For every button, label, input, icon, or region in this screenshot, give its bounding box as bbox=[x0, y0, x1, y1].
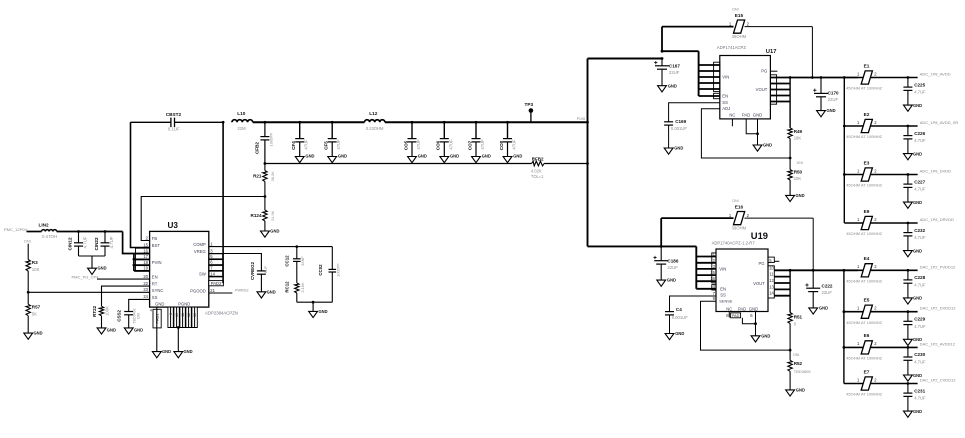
svg-text:11: 11 bbox=[181, 313, 185, 317]
wire E16 output down to U19 VOUT rail bbox=[812, 218, 814, 270]
net P1V8 label bbox=[577, 117, 585, 121]
svg-text:EN: EN bbox=[152, 275, 158, 280]
svg-text:0.33OHM: 0.33OHM bbox=[366, 126, 384, 131]
wire U3 GND pin 4 to ground bbox=[156, 307, 158, 352]
svg-text:GND: GND bbox=[513, 153, 522, 158]
capacitor C228 bbox=[903, 269, 926, 298]
svg-text:23: 23 bbox=[143, 287, 148, 292]
svg-text:DNI: DNI bbox=[732, 199, 738, 203]
ferrite bead E3 bbox=[844, 160, 917, 187]
svg-text:R124: R124 bbox=[251, 213, 262, 218]
capacitor CIN22 bbox=[94, 230, 114, 256]
svg-text:0.47OH: 0.47OH bbox=[42, 234, 57, 239]
node FB tap junction bbox=[264, 195, 267, 198]
svg-text:R52: R52 bbox=[794, 361, 803, 366]
svg-text:GND: GND bbox=[796, 387, 805, 392]
svg-text:SW: SW bbox=[199, 272, 206, 277]
svg-text:PAD: PAD bbox=[732, 314, 740, 318]
capacitor CC02 bbox=[318, 247, 341, 303]
svg-text:VREG: VREG bbox=[194, 249, 206, 254]
svg-text:10K: 10K bbox=[32, 267, 40, 272]
svg-text:16: 16 bbox=[710, 276, 715, 281]
svg-text:GND: GND bbox=[134, 327, 143, 332]
svg-text:21: 21 bbox=[210, 288, 215, 293]
svg-text:DNI: DNI bbox=[793, 353, 799, 357]
svg-text:C231: C231 bbox=[914, 388, 925, 393]
capacitor CF5 bbox=[324, 121, 347, 163]
net DAC_1P2_PVDD12 label bbox=[920, 264, 956, 269]
svg-text:C186: C186 bbox=[667, 258, 678, 263]
wire input rail PMC_12P0V bbox=[27, 231, 123, 233]
capacitor C227 bbox=[903, 173, 926, 202]
svg-text:RFB2: RFB2 bbox=[532, 156, 544, 161]
wire COMP network bottom rail bbox=[297, 301, 333, 312]
ground GND below C226 bbox=[904, 151, 923, 159]
capacitor CO5 bbox=[403, 121, 426, 163]
svg-text:CFB2: CFB2 bbox=[254, 142, 259, 154]
ground GND below C230 bbox=[904, 373, 923, 381]
svg-text:4.7UF: 4.7UF bbox=[914, 396, 926, 401]
svg-text:C232: C232 bbox=[914, 228, 925, 233]
svg-text:R50: R50 bbox=[794, 170, 803, 175]
svg-text:PAD2: PAD2 bbox=[211, 281, 222, 286]
svg-text:47UF: 47UF bbox=[512, 139, 517, 150]
wire U17 SS to C169 bbox=[669, 103, 720, 122]
ground GND below C229 bbox=[904, 337, 923, 345]
svg-text:E3: E3 bbox=[864, 160, 870, 165]
svg-text:GND: GND bbox=[184, 349, 193, 354]
svg-text:17: 17 bbox=[143, 254, 148, 259]
svg-text:E15: E15 bbox=[735, 13, 744, 18]
resistor RC12 bbox=[285, 281, 305, 302]
svg-text:22UF: 22UF bbox=[667, 265, 678, 270]
svg-text:GND: GND bbox=[913, 296, 922, 301]
capacitor CIN12 bbox=[68, 230, 88, 256]
svg-text:45OHM AT 100MHZ: 45OHM AT 100MHZ bbox=[846, 320, 882, 325]
svg-text:P1V8: P1V8 bbox=[577, 117, 585, 121]
svg-text:U17: U17 bbox=[766, 49, 777, 55]
svg-text:12: 12 bbox=[769, 278, 774, 283]
U17 VOUT pin group box bbox=[770, 75, 776, 104]
capacitor CBST2 bbox=[131, 112, 224, 131]
resistor R49 bbox=[788, 128, 803, 158]
svg-text:RC12: RC12 bbox=[285, 281, 290, 293]
wire PGOOD stub with net PWRG2 bbox=[209, 289, 249, 294]
ground GND below C167 bbox=[658, 84, 677, 92]
svg-text:GND: GND bbox=[763, 143, 772, 148]
svg-text:R49: R49 bbox=[794, 129, 803, 134]
svg-text:100K: 100K bbox=[104, 306, 109, 316]
svg-text:GND: GND bbox=[418, 153, 427, 158]
svg-text:NC: NC bbox=[726, 307, 732, 312]
svg-text:45OHM AT 100MHZ: 45OHM AT 100MHZ bbox=[846, 279, 882, 284]
U19 interior pin labels bbox=[719, 261, 765, 312]
svg-text:E2: E2 bbox=[864, 112, 870, 117]
resistor R51 bbox=[788, 313, 803, 351]
net ADC_1P8_AVDD label bbox=[920, 72, 951, 77]
wire PVIN comb bus bbox=[133, 254, 150, 271]
svg-text:C222: C222 bbox=[822, 284, 833, 289]
svg-text:CIN12: CIN12 bbox=[68, 237, 73, 250]
U19 VIN pin group box bbox=[712, 253, 716, 290]
svg-text:VIN: VIN bbox=[722, 75, 729, 80]
op-amp U17 ADP1741ACPZ body bbox=[717, 45, 777, 119]
svg-text:GND: GND bbox=[450, 153, 459, 158]
ferrite bead E16 with DNI bbox=[661, 199, 813, 246]
svg-text:C230: C230 bbox=[914, 352, 925, 357]
svg-text:16K: 16K bbox=[794, 135, 802, 140]
svg-text:GND: GND bbox=[753, 113, 762, 118]
ground GND below C170 bbox=[817, 108, 836, 117]
ground GND below R50 bbox=[786, 193, 805, 202]
svg-text:SS: SS bbox=[722, 100, 728, 105]
resistor RT22 bbox=[92, 305, 110, 328]
svg-text:E9: E9 bbox=[864, 209, 870, 214]
svg-text:EN: EN bbox=[722, 93, 728, 98]
svg-text:CC02: CC02 bbox=[318, 264, 323, 276]
wire U17 ADJ feedback path bbox=[701, 109, 790, 158]
capacitor C169 bbox=[664, 119, 687, 148]
svg-text:22: 22 bbox=[143, 281, 148, 286]
net DAC_1P2_CVDD12 label bbox=[920, 378, 957, 383]
svg-text:GND: GND bbox=[267, 289, 276, 294]
ground GND below C186 bbox=[657, 278, 676, 287]
svg-text:GND: GND bbox=[98, 266, 107, 271]
ground GND below C231 bbox=[904, 409, 923, 417]
svg-text:GND: GND bbox=[155, 302, 164, 307]
svg-text:TP3: TP3 bbox=[525, 102, 534, 107]
wire main vertical distribution bbox=[586, 59, 589, 247]
capacitor CFB2 with R21 R124 divider node bbox=[254, 121, 273, 164]
wire U19 PAD to GND bbox=[742, 312, 756, 336]
U3 pad PAD1 pin box bbox=[150, 308, 161, 328]
svg-text:45OHM AT 100MHZ: 45OHM AT 100MHZ bbox=[846, 183, 882, 188]
ground GND below CVREG2 bbox=[257, 289, 276, 298]
svg-text:CSS2: CSS2 bbox=[117, 309, 122, 321]
svg-text:C167: C167 bbox=[669, 63, 680, 68]
ferrite bead E7 bbox=[844, 369, 918, 396]
wire U17 VOUT comb bus bbox=[770, 78, 790, 128]
capacitor CO6 bbox=[436, 121, 459, 163]
U19 pad PAD pin box bbox=[726, 313, 753, 318]
svg-text:C169: C169 bbox=[675, 119, 686, 124]
resistor RFB2 bbox=[531, 156, 544, 179]
U19 VOUT pin group box bbox=[768, 257, 774, 298]
U17 VIN pin group box bbox=[714, 62, 720, 99]
wire feedback line to RFB2 bbox=[265, 163, 588, 165]
svg-text:EN: EN bbox=[720, 286, 726, 291]
svg-text:SENSE: SENSE bbox=[719, 299, 733, 304]
svg-text:10K: 10K bbox=[794, 176, 802, 181]
ferrite bead E9 bbox=[844, 209, 917, 236]
svg-text:GND: GND bbox=[667, 278, 676, 283]
svg-text:GND: GND bbox=[34, 331, 43, 336]
svg-text:45OHM AT 100MHZ: 45OHM AT 100MHZ bbox=[846, 134, 882, 139]
ferrite bead E4 bbox=[846, 256, 917, 283]
svg-text:19: 19 bbox=[143, 266, 148, 271]
svg-text:VIN: VIN bbox=[719, 266, 726, 271]
svg-text:NC: NC bbox=[729, 113, 735, 118]
svg-text:47UF: 47UF bbox=[480, 139, 485, 150]
ground GND below R52 bbox=[786, 387, 805, 396]
wire branch vertical to E2 E3 E9 bbox=[843, 78, 846, 224]
svg-text:CVREG2: CVREG2 bbox=[250, 261, 255, 280]
svg-text:U19: U19 bbox=[751, 230, 768, 241]
resistor R3 bbox=[26, 244, 40, 293]
capacitor CC12 bbox=[285, 247, 305, 283]
resistor R52 bbox=[788, 350, 811, 390]
svg-text:DNI: DNI bbox=[732, 8, 738, 12]
ground GND below RT22 bbox=[97, 327, 116, 334]
svg-text:15: 15 bbox=[710, 270, 715, 275]
net ADC_1P8_DVDD label bbox=[920, 169, 951, 174]
svg-text:COMP: COMP bbox=[193, 242, 206, 247]
svg-text:R57: R57 bbox=[32, 304, 41, 309]
ground GND below C227 bbox=[904, 200, 923, 208]
label DNI above R3 bbox=[24, 240, 30, 244]
svg-text:22UF: 22UF bbox=[828, 97, 839, 102]
wire bottom branch to U19 input bbox=[588, 245, 697, 248]
U3 interior pin labels bbox=[152, 236, 206, 307]
svg-text:13: 13 bbox=[769, 284, 774, 289]
wire U17 PAD to GND bbox=[746, 119, 759, 145]
svg-text:22UF: 22UF bbox=[822, 290, 833, 295]
svg-text:SYNC: SYNC bbox=[152, 288, 164, 293]
wire VOUT rail of U17 to E1 bbox=[789, 76, 858, 79]
U3 SW pin boxes 5 6 7 14 bbox=[209, 254, 223, 277]
ferrite bead E1 bbox=[846, 63, 917, 90]
svg-text:22UF: 22UF bbox=[669, 70, 680, 75]
svg-text:PGND: PGND bbox=[178, 302, 190, 307]
svg-text:ADC_1P8_AVDD_SR: ADC_1P8_AVDD_SR bbox=[920, 120, 959, 125]
wire output rail P1V8 bbox=[253, 121, 588, 123]
svg-text:ADP1740ACPZ-1.2-R7: ADP1740ACPZ-1.2-R7 bbox=[712, 240, 756, 245]
ground GND below C228 bbox=[904, 296, 923, 304]
net ADC_1P8_DRVDD label bbox=[920, 217, 954, 222]
svg-text:CIN22: CIN22 bbox=[94, 237, 99, 250]
ground GND below R57 bbox=[24, 331, 43, 340]
wire branch vertical to E5 E6 E7 bbox=[843, 270, 846, 383]
svg-text:15: 15 bbox=[143, 242, 148, 247]
capacitor C231 bbox=[903, 382, 926, 411]
wire PGND bus to ground bbox=[168, 326, 197, 352]
capacitor C186 polarized bbox=[653, 246, 678, 280]
svg-text:4.7UF: 4.7UF bbox=[914, 235, 926, 240]
svg-text:GND: GND bbox=[674, 146, 683, 151]
wire EN to U3 pin 20 bbox=[97, 278, 150, 280]
svg-text:13: 13 bbox=[193, 313, 197, 317]
wire C167 node to U17 VIN bus bbox=[661, 50, 699, 60]
svg-text:CO8: CO8 bbox=[499, 140, 504, 150]
svg-text:PMC_PG_CP4: PMC_PG_CP4 bbox=[72, 274, 100, 279]
svg-text:CO7: CO7 bbox=[467, 140, 472, 150]
svg-text:CF4: CF4 bbox=[291, 141, 296, 150]
svg-text:24: 24 bbox=[143, 294, 148, 299]
svg-text:RT: RT bbox=[152, 282, 158, 287]
svg-text:PGOOD: PGOOD bbox=[190, 289, 206, 294]
inductor LIN2 bbox=[39, 222, 58, 239]
svg-text:TBD0805: TBD0805 bbox=[794, 369, 812, 374]
U3 PVIN pin boxes 16-19 bbox=[136, 248, 150, 271]
svg-text:GND: GND bbox=[270, 229, 279, 234]
svg-text:GND: GND bbox=[749, 307, 758, 312]
ground GND below C169 bbox=[664, 146, 683, 155]
svg-text:20: 20 bbox=[143, 274, 148, 279]
svg-text:33NF: 33NF bbox=[300, 256, 305, 266]
wire U19 SS to C4 bbox=[670, 296, 717, 312]
svg-text:PAD: PAD bbox=[742, 113, 750, 118]
svg-text:C227: C227 bbox=[914, 179, 925, 184]
wire SS to CSS2 bbox=[129, 299, 150, 311]
svg-text:C225: C225 bbox=[914, 82, 925, 87]
capacitor CF4 bbox=[291, 121, 314, 163]
svg-text:0.001UF: 0.001UF bbox=[671, 126, 688, 131]
svg-text:L12: L12 bbox=[369, 111, 377, 116]
svg-text:3.16K: 3.16K bbox=[300, 282, 305, 293]
svg-text:12: 12 bbox=[187, 313, 191, 317]
svg-text:ADJ: ADJ bbox=[722, 106, 730, 111]
svg-text:16: 16 bbox=[143, 248, 148, 253]
ground GND below C225 bbox=[904, 103, 923, 111]
wire input corner to PVIN bus bbox=[123, 232, 134, 254]
svg-text:ADP1741ACPZ: ADP1741ACPZ bbox=[717, 45, 747, 50]
svg-text:C226: C226 bbox=[914, 131, 925, 136]
ground GND below C4 bbox=[665, 331, 684, 340]
ground GND below PGND bbox=[174, 349, 193, 358]
svg-text:C170: C170 bbox=[828, 90, 839, 95]
net DAC_1P2_DVDD12 label bbox=[920, 306, 957, 311]
capacitor CO7 bbox=[467, 121, 490, 163]
net PMC_PG_CP4 label on EN wire bbox=[72, 274, 100, 279]
svg-text:47UF: 47UF bbox=[336, 139, 341, 150]
svg-text:E5: E5 bbox=[864, 298, 870, 303]
svg-text:ADC_1P8_DRVDD: ADC_1P8_DRVDD bbox=[920, 217, 954, 222]
svg-text:CBST2: CBST2 bbox=[166, 112, 182, 117]
svg-text:ADC_1P8_DVDD: ADC_1P8_DVDD bbox=[920, 169, 951, 174]
svg-text:45OHM AT 100MHZ: 45OHM AT 100MHZ bbox=[846, 392, 882, 397]
svg-text:GND: GND bbox=[482, 153, 491, 158]
svg-text:DNI: DNI bbox=[797, 161, 803, 165]
resistor R21 bbox=[253, 164, 275, 197]
svg-text:C229: C229 bbox=[914, 317, 925, 322]
svg-text:SS: SS bbox=[152, 295, 158, 300]
net DAC_1P2_AVDD12 label bbox=[920, 341, 956, 346]
svg-text:14: 14 bbox=[210, 271, 215, 276]
capacitor C226 bbox=[903, 125, 926, 154]
svg-text:1000PF: 1000PF bbox=[336, 263, 341, 277]
wire E15 output down to VOUT rail bbox=[811, 27, 813, 78]
capacitor C229 bbox=[903, 310, 926, 339]
svg-text:R3: R3 bbox=[32, 260, 38, 265]
capacitor C167 polarized bbox=[654, 59, 680, 86]
svg-text:SS: SS bbox=[720, 293, 726, 298]
ferrite bead E15 with DNI bbox=[662, 8, 812, 52]
svg-text:VOUT: VOUT bbox=[756, 87, 768, 92]
svg-text:ADC_1P8_AVDD: ADC_1P8_AVDD bbox=[920, 72, 951, 77]
wire SW bus of U3 bbox=[209, 121, 225, 283]
svg-text:GND: GND bbox=[668, 84, 677, 89]
U3 right pin numbers bbox=[210, 241, 215, 292]
svg-text:4.7UF: 4.7UF bbox=[82, 236, 87, 248]
svg-text:4.7UF: 4.7UF bbox=[914, 324, 926, 329]
test point TP3 bbox=[525, 102, 534, 123]
svg-text:C4: C4 bbox=[676, 307, 682, 312]
svg-text:4.7UF: 4.7UF bbox=[914, 283, 926, 288]
svg-text:4.7UF: 4.7UF bbox=[109, 236, 114, 248]
svg-text:C228: C228 bbox=[914, 275, 925, 280]
wire COMP network top bbox=[209, 245, 332, 248]
svg-text:DAC_1P2_CVDD12: DAC_1P2_CVDD12 bbox=[920, 378, 957, 383]
wire U19 SENSE path bbox=[701, 301, 791, 350]
svg-text:PAD: PAD bbox=[738, 307, 746, 312]
svg-text:TOL=1: TOL=1 bbox=[531, 174, 544, 179]
wire U19 VIN comb bus bbox=[696, 246, 716, 288]
svg-text:R51: R51 bbox=[794, 314, 803, 319]
svg-text:10: 10 bbox=[175, 313, 179, 317]
svg-text:5K: 5K bbox=[32, 312, 37, 317]
svg-text:GND: GND bbox=[913, 151, 922, 156]
svg-text:GND: GND bbox=[819, 305, 828, 310]
U19 right pin numbers bbox=[769, 258, 774, 296]
inductor L12 bbox=[365, 111, 385, 131]
svg-text:45OHM AT 100MHZ: 45OHM AT 100MHZ bbox=[846, 356, 882, 361]
wire FB pin to divider tap bbox=[141, 197, 265, 241]
svg-text:45OHM AT 100MHZ: 45OHM AT 100MHZ bbox=[846, 231, 882, 236]
svg-text:DAC_1P2_AVDD12: DAC_1P2_AVDD12 bbox=[920, 341, 956, 346]
svg-text:GND: GND bbox=[338, 153, 347, 158]
U19 left pin numbers bbox=[710, 252, 715, 302]
net ADC_1P8_AVDD_SR label bbox=[920, 120, 959, 125]
svg-text:CO6: CO6 bbox=[436, 140, 441, 150]
ground GND below CSS2 bbox=[124, 327, 143, 334]
resistor R124 bbox=[251, 197, 275, 232]
wire VREG to CVREG2 bbox=[209, 254, 262, 271]
wire VOUT rail of U19 to E4 bbox=[789, 269, 858, 272]
svg-text:LIN2: LIN2 bbox=[39, 222, 50, 227]
svg-text:L10: L10 bbox=[237, 111, 245, 116]
svg-text:GND: GND bbox=[162, 349, 171, 354]
svg-text:24.9K: 24.9K bbox=[270, 210, 275, 221]
svg-text:4.02K: 4.02K bbox=[531, 169, 542, 174]
svg-text:VOUT: VOUT bbox=[753, 281, 765, 286]
svg-text:39OHM: 39OHM bbox=[732, 34, 747, 39]
ferrite bead E5 bbox=[844, 298, 918, 325]
svg-text:GND: GND bbox=[675, 331, 684, 336]
svg-text:E4: E4 bbox=[864, 256, 870, 261]
svg-text:DAC_1P2_DVDD12: DAC_1P2_DVDD12 bbox=[920, 306, 957, 311]
svg-text:4.7UF: 4.7UF bbox=[914, 360, 926, 365]
svg-text:39OHM: 39OHM bbox=[732, 225, 747, 230]
wire RT to RT22 bbox=[102, 286, 150, 306]
svg-text:GND: GND bbox=[913, 409, 922, 414]
capacitor CSS2 bbox=[117, 308, 141, 327]
svg-text:U3: U3 bbox=[168, 221, 179, 230]
wire U17 NC stub bbox=[731, 119, 733, 126]
ferrite bead E6 bbox=[844, 333, 918, 360]
wire CIN bottoms to ground bbox=[79, 256, 106, 268]
svg-text:GND: GND bbox=[913, 200, 922, 205]
svg-text:E16: E16 bbox=[735, 205, 744, 210]
svg-text:4.7UF: 4.7UF bbox=[914, 138, 926, 143]
svg-text:GND: GND bbox=[913, 103, 922, 108]
svg-text:9: 9 bbox=[169, 313, 173, 315]
ground GND below R124 bbox=[261, 229, 280, 238]
svg-text:GND: GND bbox=[107, 327, 116, 332]
ground GND below U17 PAD bbox=[753, 143, 772, 152]
capacitor C230 bbox=[903, 346, 926, 375]
svg-text:CF5: CF5 bbox=[324, 141, 329, 150]
svg-text:18: 18 bbox=[143, 260, 148, 265]
